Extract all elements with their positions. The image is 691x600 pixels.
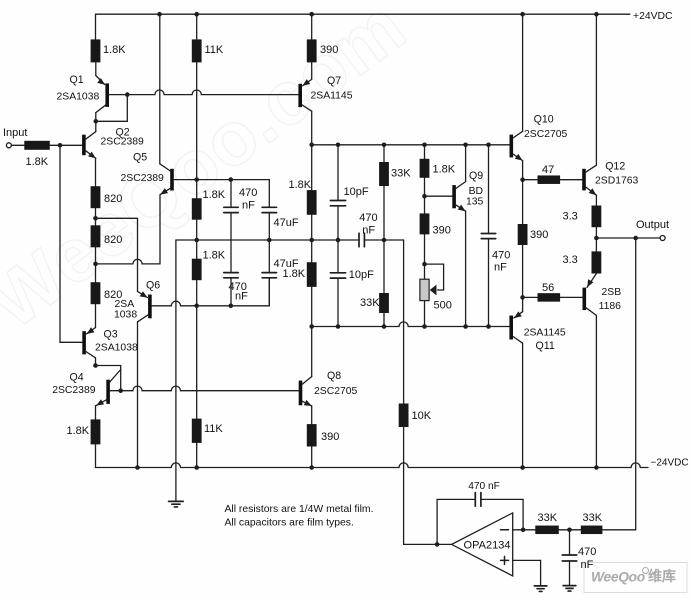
-24VDC rail	[96, 463, 649, 468]
node output at 3.3	[594, 236, 599, 241]
wire mid ground line y240	[176, 239, 359, 241]
wire Q6 base line	[152, 301, 231, 306]
svg-text:WeeQoo: WeeQoo	[591, 570, 645, 585]
wire Q9 collector	[465, 145, 467, 182]
svg-text:135: 135	[466, 197, 484, 208]
node pot wiper tap	[422, 262, 427, 267]
wire Q10 base line y144.8	[312, 144, 510, 146]
wire Q12 collector to rail	[595, 14, 597, 165]
resistor 390 under Q8	[307, 424, 317, 446]
svg-text:1.8K: 1.8K	[283, 268, 306, 280]
wire between 1.8K pair	[196, 220, 198, 259]
svg-text:Q9: Q9	[469, 170, 483, 182]
svg-text:820: 820	[104, 193, 122, 205]
resistor 33K feedback #2	[581, 526, 603, 535]
svg-text:470 nF: 470 nF	[468, 481, 500, 492]
watermark diagonal	[0, 0, 421, 346]
transistor Q6 2SA1038	[138, 291, 148, 297]
svg-text:Q6: Q6	[146, 280, 160, 292]
transistor Q5 2SC2389	[160, 164, 171, 171]
capacitor 470nF #2	[224, 272, 238, 274]
svg-text:nF: nF	[362, 225, 375, 237]
transistor Q9 BD135	[452, 185, 456, 208]
transistor Q10 2SC2705	[510, 135, 514, 158]
wire 11K to Q5 base line	[196, 62, 198, 179]
svg-text:1.8K: 1.8K	[433, 164, 456, 176]
wire Q9 emitter	[465, 211, 467, 326]
svg-text:2SA1145: 2SA1145	[524, 328, 566, 339]
svg-text:47: 47	[542, 164, 554, 176]
svg-text:33K: 33K	[538, 512, 558, 524]
svg-text:10pF: 10pF	[349, 269, 374, 281]
node input junction	[58, 143, 63, 148]
wire 56 to 2SB1186 base	[560, 296, 583, 298]
wire to Q9 base node	[424, 178, 426, 214]
svg-text:维库: 维库	[648, 568, 676, 584]
wire bias chain top	[424, 145, 426, 159]
node mid bias left	[194, 238, 199, 243]
resistor 33K mid #2	[379, 293, 389, 313]
svg-text:390: 390	[530, 229, 548, 241]
svg-text:470: 470	[492, 250, 510, 262]
svg-text:10K: 10K	[412, 410, 432, 422]
svg-text:All capacitors are film types.: All capacitors are film types.	[225, 518, 354, 529]
resistor 390 output bias	[518, 224, 528, 245]
wire 390 to Q7 emitter	[311, 14, 313, 39]
resistor 10K	[399, 404, 409, 428]
wire 33K mid to 470nF shunt	[569, 530, 571, 555]
wire input	[11, 144, 24, 146]
transistor Q1 2SA1038	[96, 76, 105, 85]
+24VDC rail	[96, 14, 630, 39]
wire Q11 base line y326.5	[312, 322, 510, 327]
svg-text:Q7: Q7	[327, 75, 341, 87]
svg-text:1.8K: 1.8K	[289, 179, 312, 191]
svg-text:nF: nF	[494, 262, 507, 274]
node Q1 base-collector tie	[94, 119, 99, 124]
wire Q11 collector to rail	[522, 343, 524, 467]
wire Q8 collector	[311, 327, 313, 377]
svg-text:All resistors are 1/4W metal f: All resistors are 1/4W metal film.	[225, 504, 374, 515]
capacitor 47uF #2	[268, 240, 270, 273]
resistor 1.8K bias	[420, 159, 430, 178]
transistor Q3 2SA1038	[87, 328, 96, 334]
node 47uF mid	[267, 238, 272, 243]
wire 1.8K pair mid	[311, 215, 313, 262]
wire 11K bottom column	[196, 306, 198, 419]
svg-text:−24VDC: −24VDC	[651, 457, 689, 468]
wire 47uF1 to mid	[268, 213, 270, 240]
wire output line	[596, 237, 660, 239]
resistor 1.8K input	[24, 141, 50, 150]
svg-text:2SB: 2SB	[602, 287, 622, 298]
wire 47 to Q12 base	[560, 179, 582, 181]
svg-text:47uF: 47uF	[274, 217, 299, 229]
output terminal	[660, 236, 665, 241]
svg-text:2SC2389: 2SC2389	[52, 385, 96, 396]
svg-text:2SC2705: 2SC2705	[524, 129, 568, 140]
svg-text:33K: 33K	[360, 297, 380, 309]
svg-text:1.8K: 1.8K	[203, 250, 226, 262]
wire Q1 collector	[95, 113, 97, 122]
svg-text:470: 470	[359, 212, 377, 224]
wire 390 to pot	[424, 234, 426, 279]
svg-text:nF: nF	[242, 200, 255, 212]
svg-text:Q4: Q4	[70, 372, 84, 384]
node Q7 collector line	[309, 143, 314, 148]
resistor 820 #3	[91, 282, 101, 304]
svg-text:33K: 33K	[583, 512, 603, 524]
svg-text:Q8: Q8	[327, 370, 341, 382]
capacitor 10pF #1	[337, 145, 339, 201]
resistor 3.3 #1	[592, 206, 602, 228]
capacitor 470nF bias	[488, 145, 490, 234]
resistor 11K bottom	[192, 419, 202, 443]
resistor 1.8K mid-left #1	[192, 198, 202, 220]
resistor 1.8K mid-left #2	[192, 259, 202, 281]
wire Q12 emitter	[595, 195, 597, 205]
svg-text:1.8K: 1.8K	[203, 189, 226, 201]
wire 3.3 to output node	[595, 227, 597, 251]
wire input to Q2 base	[50, 144, 82, 146]
svg-text:3.3: 3.3	[563, 254, 578, 266]
wire 2SB1186 collector to rail	[595, 315, 597, 467]
svg-text:nF: nF	[235, 291, 248, 303]
transistor Q12 2SD1763	[582, 169, 586, 191]
wire to 47 resistor	[523, 179, 538, 181]
potentiometer 500	[420, 279, 429, 300]
svg-text:2SA: 2SA	[115, 299, 135, 310]
resistor 1.8K mid #2	[307, 262, 317, 287]
wire 820 chain	[95, 208, 97, 225]
resistor 1.8K mid #1	[311, 145, 313, 190]
svg-text:Q12: Q12	[605, 161, 625, 173]
transistor Q2 2SC2389	[82, 135, 86, 156]
svg-text:Input: Input	[3, 127, 27, 139]
svg-text:Output: Output	[636, 219, 669, 231]
resistor 11K top	[192, 39, 202, 62]
ground main	[169, 500, 184, 502]
resistor 390 top	[307, 39, 317, 62]
svg-text:1038: 1038	[114, 310, 137, 321]
resistor 820 #2	[91, 225, 101, 247]
wire Q6 collector to rail	[137, 322, 139, 468]
svg-text:1.8K: 1.8K	[26, 156, 49, 168]
node 56 tap	[520, 295, 525, 300]
node Q3 collector junction	[93, 363, 98, 368]
resistor 1.8K bottom-left	[91, 419, 101, 444]
resistor 390 bias	[420, 213, 430, 234]
svg-text:OPA2134: OPA2134	[464, 540, 511, 552]
resistor 33K mid #1	[383, 145, 385, 162]
wire opamp output line	[404, 543, 452, 545]
transistor 2SB1186	[583, 288, 587, 311]
svg-text:33K: 33K	[391, 168, 411, 180]
wire Q10 emitter	[522, 161, 524, 224]
wire 820 chain 2	[95, 247, 97, 282]
svg-text:10pF: 10pF	[344, 186, 369, 198]
svg-text:820: 820	[104, 234, 122, 246]
svg-text:500: 500	[434, 300, 452, 312]
wire Q7 collector	[311, 111, 313, 145]
wire 10K to opamp output	[403, 427, 405, 544]
svg-text:470: 470	[239, 187, 257, 199]
transistor Q8 2SC2705	[299, 381, 303, 406]
resistor 820 #1	[91, 186, 101, 208]
svg-text:nF: nF	[581, 559, 594, 571]
wire Q4-Q8 base line	[110, 386, 299, 391]
capacitor 470nF #1	[230, 180, 232, 208]
svg-text:1.8K: 1.8K	[67, 425, 90, 437]
wire pot to base line	[424, 301, 426, 327]
wire Q4 emitter	[95, 406, 97, 420]
svg-text:56: 56	[542, 282, 554, 294]
transistor Q4 2SC2389	[106, 380, 110, 404]
wire Q3 collector	[95, 358, 97, 366]
input terminal	[6, 143, 11, 148]
node 47 tap	[520, 177, 525, 182]
node 820-1/820-2	[93, 216, 98, 221]
wire 1.8K to Q1 emitter	[95, 62, 97, 75]
resistor 1.8K top-left	[91, 39, 101, 62]
svg-text:11K: 11K	[204, 423, 223, 435]
svg-text:2SD1763: 2SD1763	[595, 176, 639, 187]
svg-text:3.3: 3.3	[563, 211, 578, 223]
svg-text:Q11: Q11	[536, 340, 555, 352]
resistor 3.3 #2	[592, 251, 602, 273]
watermark box bottom-right	[584, 563, 687, 593]
wire Q5 base line	[174, 180, 269, 208]
capacitor 470nF series mid	[358, 233, 360, 247]
node Q9 base tap	[422, 194, 427, 199]
wire 33K pair mid	[383, 186, 385, 293]
resistor 33K feedback #1	[535, 526, 559, 535]
capacitor 470nF shunt	[562, 554, 576, 556]
resistor 56	[538, 293, 561, 302]
svg-text:+24VDC: +24VDC	[633, 11, 673, 22]
svg-text:2SA1038: 2SA1038	[57, 92, 100, 103]
wire Q3 collector to Q4 base	[96, 366, 121, 392]
op-amp OPA2134	[452, 513, 513, 576]
wire Q1-Q7 base line	[109, 90, 299, 95]
wire comp node down x403.6	[403, 240, 405, 404]
wire 3.3 to 2SB emitter	[587, 274, 596, 288]
wire 11K top column	[196, 14, 198, 39]
capacitor 470nF feedback	[437, 499, 475, 544]
svg-text:Q10: Q10	[534, 114, 554, 126]
wire Q10 collector to rail	[522, 14, 524, 131]
wire shunt cap to ground	[569, 561, 571, 585]
svg-text:1186: 1186	[599, 301, 622, 312]
capacitor 10pF #2	[337, 240, 339, 273]
wire Q8 emitter	[311, 406, 313, 424]
transistor Q7 2SA1145	[303, 79, 312, 85]
wire input to Q3 base	[60, 145, 82, 342]
svg-text:11K: 11K	[205, 44, 224, 56]
svg-text:2SC2389: 2SC2389	[121, 173, 165, 184]
wire opamp minus input	[513, 529, 536, 531]
transistor Q11 2SA1145	[514, 312, 523, 318]
wire between 33K	[559, 529, 581, 531]
wire Q5 collector to rail	[159, 14, 161, 164]
node 820-2/820-3	[93, 262, 98, 267]
wire opamp plus input	[513, 560, 541, 585]
wire 390 to 56 tap	[522, 245, 524, 312]
ground shunt cap	[563, 585, 576, 587]
wire Q2 emitter	[95, 158, 97, 186]
ground opamp plus	[534, 585, 547, 587]
wire junction1 to Q6 emitter	[96, 218, 138, 291]
wire 470nF series mid	[230, 213, 232, 273]
wire Q9 base	[425, 195, 453, 197]
svg-text:Q1: Q1	[70, 74, 84, 86]
svg-text:2SC2705: 2SC2705	[314, 386, 358, 397]
svg-text:390: 390	[433, 225, 451, 237]
svg-text:Q5: Q5	[133, 152, 147, 164]
wire junction2 to Q5 emitter	[96, 259, 161, 264]
svg-text:390: 390	[321, 431, 339, 443]
svg-text:2SA1038: 2SA1038	[95, 343, 138, 354]
resistor 47	[538, 175, 561, 184]
wire output to feedback	[635, 238, 637, 530]
wire 820 to Q3 emitter	[95, 304, 97, 327]
svg-text:470: 470	[578, 546, 596, 558]
svg-text:2SC2389: 2SC2389	[101, 136, 145, 147]
wire to 56 resistor	[523, 296, 538, 298]
wire ground stem x175.9	[175, 240, 177, 501]
node Q8 collector line	[309, 324, 314, 329]
svg-text:Q3: Q3	[104, 329, 118, 341]
capacitor 47uF #1	[262, 206, 276, 208]
svg-text:BD: BD	[469, 186, 483, 197]
svg-text:1.8K: 1.8K	[103, 44, 126, 56]
svg-text:390: 390	[320, 44, 338, 56]
svg-text:2SA1145: 2SA1145	[311, 90, 353, 101]
